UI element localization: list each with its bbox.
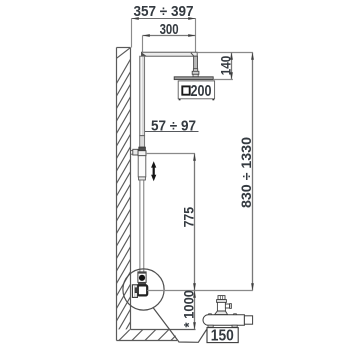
detail side knob xyxy=(225,304,229,308)
svg-text:* 1000: * 1000 xyxy=(181,290,197,328)
svg-text:775: 775 xyxy=(181,207,197,228)
slider bottom cap xyxy=(139,177,146,180)
mixer cone xyxy=(137,283,146,286)
square glyph xyxy=(182,86,189,94)
shower head plate xyxy=(174,77,213,80)
svg-text:357 ÷ 397: 357 ÷ 397 xyxy=(134,3,194,20)
column upper tube xyxy=(140,56,145,136)
pipe fitting xyxy=(192,71,199,74)
dim 1000 line xyxy=(194,291,196,330)
svg-text:830 ÷ 1330: 830 ÷ 1330 xyxy=(238,137,254,208)
slider tube xyxy=(138,156,146,177)
wall hatch xyxy=(117,59,131,346)
mixer valve body xyxy=(138,285,147,295)
lower thin tube xyxy=(140,180,144,272)
detail outlet body xyxy=(217,302,225,311)
column joint xyxy=(140,135,145,137)
shower arm xyxy=(142,52,198,56)
extension at mixer level xyxy=(147,290,253,292)
dim 830-1330 xyxy=(252,53,254,291)
wall outline xyxy=(117,48,131,341)
dim 775 line xyxy=(194,154,196,291)
dim line 357-397 xyxy=(132,18,196,20)
pipe coupling xyxy=(193,69,197,72)
svg-text:140: 140 xyxy=(217,56,233,76)
dim 140 xyxy=(231,53,233,80)
detail outlet ring xyxy=(217,300,227,303)
dim 300 extension left xyxy=(142,36,144,53)
detail outlet base xyxy=(215,311,228,315)
dim line 300 xyxy=(143,35,196,37)
shower pipe xyxy=(194,56,198,69)
leader to detail xyxy=(153,308,207,343)
column tube to clamp xyxy=(140,136,145,147)
underline 57-97 xyxy=(141,131,199,133)
mixer wall flange xyxy=(132,285,137,298)
detail mixer outlet cap xyxy=(218,296,225,300)
detail circle xyxy=(123,269,164,310)
clamp dark band xyxy=(139,147,146,151)
floor outline xyxy=(117,330,196,341)
label 200 box xyxy=(178,81,214,99)
detail tabs xyxy=(208,325,213,327)
wall cut diagonal at top xyxy=(117,48,131,59)
dim right extension (shower head axis) xyxy=(195,18,197,52)
detail body escutcheon bumps xyxy=(208,314,212,316)
dim 357-397 extension left xyxy=(131,19,133,48)
mixer top fitting xyxy=(138,272,146,283)
mixer connector xyxy=(135,288,138,293)
svg-text:150: 150 xyxy=(211,328,234,345)
detail body right cap xyxy=(244,316,252,324)
top extension line to right dims xyxy=(197,52,253,54)
adjustment arrow xyxy=(151,161,156,181)
svg-text:300: 300 xyxy=(160,21,179,38)
label 150 box xyxy=(207,328,238,343)
mixer dot xyxy=(139,275,145,281)
svg-text:200: 200 xyxy=(191,83,212,100)
bracket body xyxy=(138,151,146,156)
floor hatch xyxy=(119,329,182,340)
detail mixer body xyxy=(203,315,244,325)
wall bracket knob xyxy=(133,149,138,155)
label 200 ticks xyxy=(179,97,181,100)
dim 775 top extension xyxy=(146,153,195,155)
